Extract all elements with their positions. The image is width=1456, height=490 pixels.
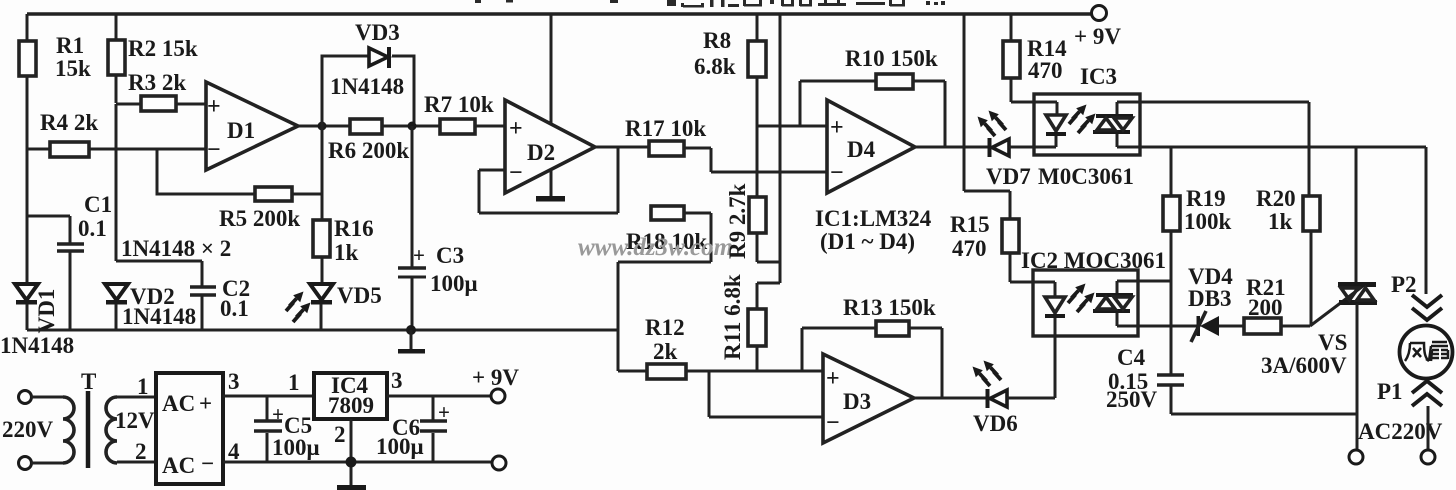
svg-text:D2: D2	[527, 140, 555, 165]
svg-text:1: 1	[137, 374, 149, 399]
svg-text:2: 2	[135, 439, 147, 464]
wire: R19 column to C4 and VD4 junction	[1171, 325, 1198, 328]
wire: feedback from D1 minus down to R5	[157, 149, 255, 194]
regulator IC4 7809	[314, 373, 387, 419]
wire: bridge pin3 to IC4	[223, 395, 314, 398]
svg-text:−: −	[201, 451, 214, 476]
IC2 internal LED	[1033, 282, 1055, 297]
wire: +9V column to R15	[964, 14, 1010, 219]
wire: D3 output to VD6	[914, 397, 986, 400]
svg-text:0.1: 0.1	[78, 216, 107, 241]
node A (D1 output junction)	[318, 122, 327, 131]
transformer T primary	[31, 397, 63, 463]
svg-text:C4: C4	[1117, 345, 1146, 370]
resistor R6	[350, 119, 382, 134]
svg-text:1N4148: 1N4148	[330, 74, 404, 99]
svg-text:R15: R15	[950, 212, 990, 237]
svg-text:R19: R19	[1186, 186, 1226, 211]
svg-text:100μ: 100μ	[272, 435, 320, 460]
optocoupler IC2 MOC3061	[1033, 270, 1138, 336]
svg-text:200: 200	[1248, 295, 1283, 320]
triac VS	[1310, 286, 1363, 326]
resistor R15	[1002, 219, 1019, 253]
resistor R8	[756, 14, 759, 197]
resistor R10	[800, 81, 945, 147]
svg-text:D4: D4	[847, 137, 876, 162]
svg-text:IC3: IC3	[1080, 64, 1117, 89]
svg-text:VD5: VD5	[337, 283, 382, 308]
svg-text:−: −	[207, 137, 221, 163]
svg-text:+: +	[413, 243, 425, 267]
title fragments (cropped Chinese heading)	[475, 0, 945, 8]
svg-text:R6 200k: R6 200k	[328, 138, 409, 163]
svg-text:470: 470	[1028, 58, 1063, 83]
capacitor C3 (electrolytic)	[411, 126, 414, 330]
resistor R14	[1011, 14, 1034, 102]
wire: left rail column	[26, 14, 29, 285]
svg-text:1k: 1k	[1268, 209, 1293, 234]
IC3 light arrows	[1069, 105, 1087, 125]
svg-text:3A/600V: 3A/600V	[1261, 353, 1347, 378]
transformer T secondary 12V	[106, 397, 117, 463]
ground (below C3)	[410, 330, 413, 349]
resistor R1	[19, 41, 36, 76]
svg-text:2: 2	[334, 422, 346, 447]
svg-text:+: +	[272, 402, 284, 426]
terminal gnd out	[492, 456, 506, 470]
svg-text:R4 2k: R4 2k	[40, 110, 98, 135]
wire: VD2/C2 top link	[116, 261, 202, 330]
capacitor C1	[27, 216, 70, 330]
svg-text:4: 4	[228, 439, 240, 464]
svg-text:+: +	[830, 115, 844, 141]
op-amp D4	[827, 100, 915, 193]
led VD6	[986, 389, 990, 408]
IC2 internal triac	[1096, 293, 1133, 297]
svg-text:1N4148 × 2: 1N4148 × 2	[121, 236, 231, 261]
wire: R8/R9 tap to D4 plus	[757, 125, 827, 128]
svg-text:VS: VS	[1318, 330, 1347, 355]
svg-text:3: 3	[228, 369, 240, 394]
svg-text:R8: R8	[703, 28, 731, 53]
svg-text:−: −	[830, 160, 844, 186]
svg-text:250V: 250V	[1106, 387, 1158, 412]
fan M	[1400, 326, 1453, 379]
svg-text:6.8k: 6.8k	[694, 54, 736, 79]
svg-text:100μ: 100μ	[376, 434, 424, 459]
svg-text:R2 15k: R2 15k	[128, 36, 198, 61]
wire: node A up to VD3 branch	[322, 56, 414, 126]
svg-text:(D1 ~ D4): (D1 ~ D4)	[820, 229, 915, 254]
svg-text:3: 3	[391, 368, 403, 393]
resistor R12	[618, 370, 823, 373]
svg-text:IC2 MOC3061: IC2 MOC3061	[1021, 248, 1166, 273]
svg-text:VD6: VD6	[973, 411, 1018, 436]
wire: IC2 bottom output to VD4	[1140, 325, 1198, 328]
svg-text:R5 200k: R5 200k	[219, 206, 300, 231]
op-amp D1	[206, 82, 298, 170]
svg-text:R16: R16	[334, 216, 374, 241]
resistor R11	[748, 309, 766, 346]
svg-text:2k: 2k	[653, 339, 678, 364]
wire: D4 output to VD7	[915, 146, 988, 149]
wire: right rail column to R11	[757, 14, 780, 309]
resistor R2	[115, 14, 118, 103]
ground (D2)	[536, 196, 565, 202]
svg-text:C1: C1	[84, 192, 112, 217]
wire: D2 output	[595, 147, 649, 213]
svg-text:AC: AC	[162, 391, 195, 416]
op-amp D2	[505, 100, 595, 193]
fan label 风 (vector strokes)	[1405, 343, 1429, 361]
svg-text:470: 470	[952, 236, 987, 261]
resistor R17	[649, 141, 684, 156]
wire: D1 output to node A	[298, 125, 350, 128]
capacitor C6	[432, 396, 435, 462]
wire: top +9V rail	[27, 12, 1091, 16]
node C (ground junction)	[406, 325, 416, 335]
photodiode VD5	[310, 284, 333, 300]
transformer core	[86, 391, 91, 468]
svg-text:15k: 15k	[55, 56, 91, 81]
svg-text:100μ: 100μ	[430, 271, 478, 296]
resistor R20	[1303, 196, 1320, 231]
svg-text:AC: AC	[162, 453, 195, 478]
svg-text:7809: 7809	[328, 393, 374, 418]
wire: VD6 to IC2 LED cathode	[1007, 318, 1055, 398]
wire: D2 feedback loop	[479, 170, 618, 213]
resistor R13	[802, 328, 942, 398]
svg-text:+: +	[826, 366, 840, 392]
svg-text:DB3: DB3	[1188, 286, 1231, 311]
wire: IC3 bottom output rail to fan	[1140, 146, 1426, 149]
terminal 220V top	[19, 391, 32, 404]
resistor R18	[651, 206, 684, 220]
svg-text:+: +	[199, 391, 212, 416]
svg-text:12V: 12V	[115, 408, 155, 433]
resistor R9	[749, 197, 766, 233]
svg-text:R7 10k: R7 10k	[424, 92, 494, 117]
svg-text:D1: D1	[227, 118, 255, 143]
svg-text:−: −	[826, 410, 840, 436]
bridge rectifier AC+/AC-	[156, 373, 223, 484]
svg-text:100k: 100k	[1184, 209, 1232, 234]
svg-text:IC1:LM324: IC1:LM324	[815, 206, 932, 231]
svg-text:M0C3061: M0C3061	[1038, 164, 1134, 189]
svg-text:+: +	[207, 94, 221, 120]
svg-text:VD3: VD3	[355, 20, 400, 45]
wire: IC2 top output to R19 column	[1138, 280, 1171, 283]
svg-text:VD7: VD7	[986, 164, 1031, 189]
ground (IC4)	[337, 485, 366, 490]
resistor R16	[321, 126, 324, 285]
svg-text:1k: 1k	[334, 240, 359, 265]
wire: bridge pin4 bottom rail	[223, 461, 492, 464]
terminal 220V bottom	[19, 457, 32, 470]
svg-text:R20: R20	[1256, 186, 1296, 211]
wire: IC4 out to +9V terminal	[387, 395, 491, 398]
IC2 light arrows	[1068, 284, 1086, 304]
svg-text:R1: R1	[56, 33, 84, 58]
wire: R12 node down to D3 minus	[709, 371, 823, 417]
fan label 扇 (vector strokes)	[1429, 342, 1448, 361]
svg-text:1: 1	[288, 370, 300, 395]
wire: IC4 pin2 down	[350, 419, 353, 486]
svg-text:P1: P1	[1377, 379, 1403, 404]
svg-text:R12: R12	[645, 315, 685, 340]
terminal AC220V right	[1421, 450, 1435, 464]
svg-text:D3: D3	[843, 389, 871, 414]
terminal AC220V left	[1349, 450, 1363, 464]
capacitor C5	[266, 396, 269, 462]
svg-text:P2: P2	[1391, 272, 1417, 297]
svg-text:0.1: 0.1	[220, 296, 249, 321]
svg-text:R13 150k: R13 150k	[843, 295, 936, 320]
svg-text:+: +	[438, 400, 450, 424]
wire: IC3 top output to R20	[1140, 102, 1309, 196]
svg-text:C3: C3	[436, 243, 464, 268]
svg-text:AC220V: AC220V	[1358, 419, 1443, 444]
svg-text:1N4148: 1N4148	[122, 304, 196, 329]
svg-text:R11 6.8k: R11 6.8k	[720, 274, 745, 360]
resistor R3	[116, 103, 206, 106]
svg-text:R9 2.7k: R9 2.7k	[725, 183, 750, 259]
wire: R3 node column down to VD2	[115, 104, 118, 261]
diode VD2	[105, 284, 128, 300]
diode VD3 1N4148	[369, 48, 388, 66]
diode VD1	[15, 284, 38, 300]
diac VD4 DB3	[1200, 316, 1219, 336]
svg-text:R10 150k: R10 150k	[845, 46, 938, 71]
wire: bottom rail left section	[27, 329, 618, 332]
wire: top rail down through D2 to ground	[550, 14, 553, 196]
svg-text:1N4148: 1N4148	[0, 333, 74, 358]
svg-text:VD1: VD1	[34, 289, 59, 334]
resistor R5	[255, 187, 292, 201]
svg-text:−: −	[509, 160, 523, 186]
node D (IC4 gnd junction)	[346, 457, 357, 468]
svg-text:R17 10k: R17 10k	[625, 116, 706, 141]
svg-text:+: +	[509, 116, 523, 142]
svg-text:+ 9V: + 9V	[472, 365, 519, 390]
optocoupler IC3 MOC3061	[1034, 94, 1140, 155]
svg-text:www.dz3w.com: www.dz3w.com	[578, 234, 733, 261]
IC3 internal LED	[1034, 102, 1057, 115]
resistor R19	[1170, 147, 1173, 196]
node B (R6/R7/C3 junction)	[408, 122, 417, 131]
op-amp D3	[823, 354, 914, 443]
wire: C4 bottom rail	[1171, 413, 1357, 416]
resistor R21	[1244, 318, 1281, 334]
resistor R7	[440, 119, 475, 134]
svg-text:R3 2k: R3 2k	[128, 70, 186, 95]
terminal +9V out	[491, 389, 505, 403]
resistor R4	[27, 148, 206, 151]
svg-text:T: T	[81, 369, 96, 394]
svg-text:220V: 220V	[2, 417, 54, 442]
led VD7	[988, 138, 992, 157]
svg-text:+ 9V: + 9V	[1074, 24, 1121, 49]
IC3 internal triac	[1096, 114, 1133, 118]
capacitor C4	[1157, 375, 1184, 385]
terminal +9V top right	[1092, 6, 1107, 21]
capacitor C2	[190, 287, 216, 295]
